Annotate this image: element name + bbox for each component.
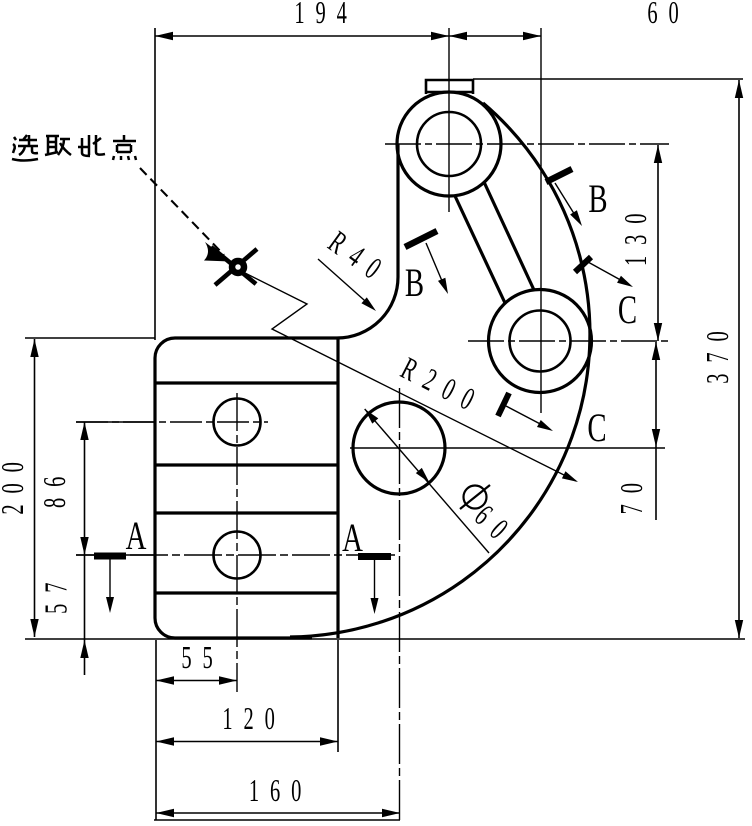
section B left arrow stem xyxy=(426,243,445,288)
arrow 55 left xyxy=(156,676,174,684)
hole1 centerline horizontal xyxy=(76,421,268,423)
callout dashed leader xyxy=(140,168,224,255)
section C upper tick xyxy=(575,257,591,272)
arm edge left xyxy=(455,196,505,303)
point X mark stroke 2 xyxy=(215,249,257,285)
section A right arrowhead xyxy=(371,598,379,614)
point donut xyxy=(232,261,244,273)
extension y422 left xyxy=(76,421,156,423)
leader dia60 line xyxy=(365,409,489,553)
leader R40 line xyxy=(318,259,373,308)
arrow 70 top xyxy=(652,342,660,360)
extension y555 left xyxy=(76,554,156,556)
boss1 outer circle xyxy=(397,92,501,196)
dia symbol circle xyxy=(464,486,487,509)
big arc R200 outline xyxy=(290,103,590,637)
svg-text:120: 120 xyxy=(222,700,285,736)
section B right tick xyxy=(546,169,572,182)
part rib line 3 xyxy=(155,511,338,514)
callout text: hanzi xuan xyxy=(12,135,38,161)
svg-text:A: A xyxy=(342,515,363,560)
arrow 86 top xyxy=(80,422,88,440)
extension bottom y639 xyxy=(25,638,745,640)
dia60 centerline vertical xyxy=(399,388,401,821)
arrowhead R200 xyxy=(562,471,580,485)
svg-text:57: 57 xyxy=(38,572,74,614)
point X mark stroke 1 xyxy=(211,247,256,284)
section A left bar xyxy=(94,553,126,560)
svg-text:55: 55 xyxy=(181,639,223,675)
boss1 top notch xyxy=(426,80,473,94)
part left edge upper xyxy=(396,144,399,277)
boss1 centerline vertical xyxy=(448,28,450,212)
boss2 centerline horizontal xyxy=(468,340,669,342)
bottom scan edge line xyxy=(154,819,400,821)
arrowhead dia60 lower xyxy=(416,468,433,485)
arrow 200 bottom xyxy=(30,619,38,637)
holes centerline vertical xyxy=(236,393,238,692)
dim line 86 xyxy=(84,422,86,555)
svg-text:A: A xyxy=(126,513,147,558)
svg-text:C: C xyxy=(618,287,637,332)
section B right arrowhead xyxy=(570,210,585,228)
extension line top right y79 xyxy=(473,78,743,80)
arrow 370 top xyxy=(735,80,743,98)
svg-text:130: 130 xyxy=(617,203,653,266)
arrow 194 right xyxy=(431,32,449,40)
arrow 194 left xyxy=(155,32,173,40)
part inner step edge vertical xyxy=(336,338,339,638)
extension left y338 xyxy=(25,337,155,339)
arrow 60 left xyxy=(449,32,467,40)
callout text: hanzi qu xyxy=(45,136,71,155)
dim line 370 xyxy=(738,80,740,638)
dim line 57 xyxy=(84,555,86,675)
extension x338 bottom xyxy=(337,640,339,752)
dia60 centerline horizontal xyxy=(350,447,665,449)
callout text: hanzi dian xyxy=(113,135,136,160)
dim line 55 xyxy=(156,680,237,682)
callout arrowhead xyxy=(204,242,231,262)
arrow 120 right xyxy=(320,737,338,745)
dim line 60 xyxy=(449,35,541,37)
section A right arrow stem xyxy=(374,560,376,601)
section A left arrowhead xyxy=(106,597,114,613)
fillet R40 xyxy=(337,277,398,338)
arrow 86 bottom xyxy=(80,537,88,555)
leader R200 zigzag xyxy=(243,272,576,481)
section B right arrow stem xyxy=(555,183,578,220)
svg-text:194: 194 xyxy=(294,0,357,30)
svg-text:160: 160 xyxy=(249,772,312,808)
extension x156 bottom xyxy=(155,640,157,820)
arrow 160 right xyxy=(382,809,400,817)
dim line 160 xyxy=(156,812,400,814)
svg-text:C: C xyxy=(587,405,606,450)
dim line 130 xyxy=(657,145,659,341)
boss2 centerline vertical xyxy=(540,28,542,413)
dim line 200 xyxy=(34,339,36,637)
arrow 60 right xyxy=(523,32,541,40)
svg-text:70: 70 xyxy=(613,472,649,514)
dim line 194 xyxy=(155,35,449,37)
arrowhead dia60 upper xyxy=(362,406,379,423)
dia symbol slash xyxy=(460,485,490,509)
section C lower arrow stem xyxy=(506,406,546,427)
arrow 55 right xyxy=(219,676,237,684)
boss1 hole circle xyxy=(417,112,481,176)
arrowhead R40 xyxy=(361,297,378,314)
section C lower arrowhead xyxy=(537,420,555,435)
svg-text:B: B xyxy=(405,260,424,305)
arrow 70 bottom xyxy=(652,429,660,447)
svg-text:86: 86 xyxy=(36,466,72,508)
arrow 130 bottom xyxy=(654,323,662,341)
dim line 120 xyxy=(156,741,338,743)
arrow 370 bottom xyxy=(735,620,743,638)
section A right bar xyxy=(358,553,391,560)
hole1 circle xyxy=(214,399,261,446)
hole2 centerline horizontal xyxy=(76,554,395,556)
part rib line 4 xyxy=(155,591,338,594)
boss2 outer circle xyxy=(489,290,592,393)
hole2 circle xyxy=(214,532,261,579)
arrow 200 top xyxy=(30,339,38,357)
arrow 130 top xyxy=(654,145,662,163)
svg-text:60: 60 xyxy=(647,0,689,30)
boss1 centerline horizontal xyxy=(385,143,669,145)
svg-text:B: B xyxy=(588,176,607,221)
extension line left x155 xyxy=(154,28,156,340)
section B left tick xyxy=(405,231,437,247)
section B left arrowhead xyxy=(438,278,452,296)
section C lower tick xyxy=(498,393,509,416)
section A left arrow stem xyxy=(109,559,111,600)
arrow 57 bottom outside xyxy=(80,640,88,658)
part lower-left block outline xyxy=(155,338,337,638)
section C upper arrowhead xyxy=(617,276,635,291)
svg-text:200: 200 xyxy=(0,451,30,514)
callout text: hanzi ci xyxy=(78,135,105,156)
boss2 hole circle xyxy=(510,311,571,372)
arm edge right xyxy=(484,182,534,290)
dim line 70 xyxy=(655,342,657,520)
hole dia60 circle xyxy=(353,402,445,494)
part rib line 1 xyxy=(155,381,338,384)
section C upper arrow stem xyxy=(588,262,626,283)
arrow 160 left xyxy=(156,809,174,817)
part rib line 2 xyxy=(155,463,338,466)
arrow 120 left xyxy=(156,737,174,745)
svg-text:370: 370 xyxy=(699,320,735,383)
